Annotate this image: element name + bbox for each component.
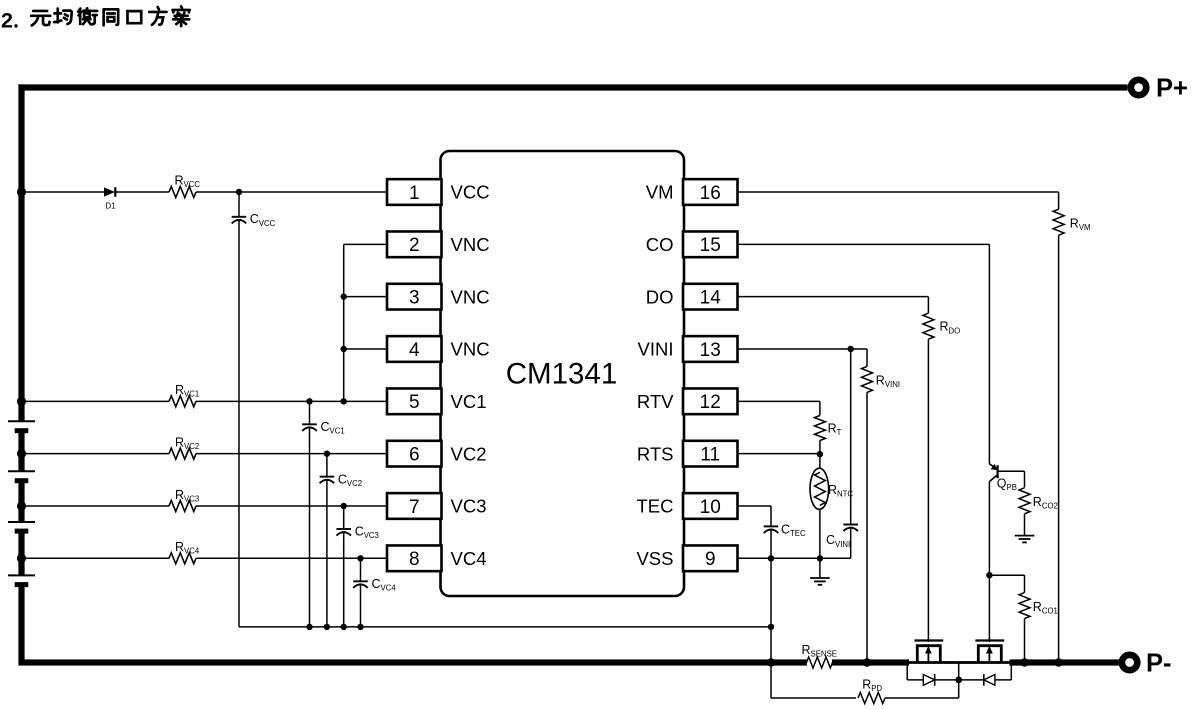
- wire RT upper lead: [819, 401, 821, 415]
- svg-text:P-: P-: [1146, 650, 1172, 678]
- svg-text:14: 14: [700, 287, 722, 308]
- ground (VSS): [819, 558, 821, 578]
- node RNTC/VSS junction: [817, 555, 823, 561]
- wire D2 to diode node: [935, 679, 959, 681]
- capacitor CVC4: [353, 580, 368, 582]
- svg-text:VCC: VCC: [451, 182, 490, 203]
- wire pin 16 to RVM: [738, 191, 1059, 193]
- wire RVC3 to pin 7: [196, 505, 387, 507]
- svg-text:RVINI: RVINI: [876, 374, 900, 390]
- svg-text:VNC: VNC: [451, 339, 490, 360]
- resistor RVM: [1053, 209, 1064, 235]
- pin 2 box (VNC): [387, 231, 442, 257]
- wire RVINI upper lead: [866, 349, 868, 366]
- wire P+ tap to D1: [22, 191, 105, 193]
- node CVC3 bus junction: [341, 624, 347, 630]
- wire CO column mid: [988, 482, 990, 576]
- svg-text:1: 1: [409, 183, 420, 204]
- pin 12 box (RTV): [683, 388, 738, 414]
- pin 5 box (VC1): [387, 388, 442, 414]
- node battery tap 2: [17, 449, 26, 458]
- svg-text:RSENSE: RSENSE: [802, 643, 837, 659]
- wire battery stack rail (left): [18, 84, 24, 421]
- capacitor CVC3: [336, 528, 351, 530]
- wire VSS column to P- rail: [770, 627, 772, 663]
- wire DO column upper: [927, 297, 929, 314]
- wire RVINI to P- rail: [866, 392, 868, 662]
- wire VNC vertical tie: [343, 244, 345, 401]
- wire RTS node to RNTC: [819, 454, 821, 469]
- wire RPD to diode node: [885, 697, 959, 699]
- battery cell B1: [8, 420, 35, 422]
- svg-text:P+: P+: [1156, 75, 1188, 103]
- node bus right junction: [768, 624, 774, 630]
- svg-text:RVC3: RVC3: [175, 488, 199, 504]
- svg-text:TEC: TEC: [637, 496, 674, 517]
- transistor QPB: [989, 464, 997, 470]
- wire QPB base to RCO2: [998, 470, 1025, 472]
- capacitor CVC2: [320, 476, 335, 478]
- svg-text:RVM: RVM: [1070, 217, 1091, 233]
- wire CO column to Q2 gate: [988, 575, 990, 642]
- wire RVM upper lead: [1058, 192, 1060, 209]
- wire battery tap to RVC3: [22, 505, 170, 507]
- node VSS rail junction: [767, 658, 775, 666]
- node CVC4 top junction: [357, 555, 363, 561]
- pin 14 box (DO): [683, 284, 738, 310]
- wire battery tap to RVC2: [22, 453, 170, 455]
- wire CVC4 lower lead: [360, 584, 362, 626]
- svg-text:VC4: VC4: [451, 548, 487, 569]
- node RVINI rail junction: [863, 658, 871, 666]
- wire CVC2 upper lead: [326, 454, 328, 477]
- wire VNC pin 2: [344, 243, 387, 245]
- node CO/RCO1 junction: [986, 572, 992, 578]
- svg-text:5: 5: [409, 392, 420, 413]
- wire pin 9 VSS line: [738, 557, 851, 559]
- svg-text:2: 2: [409, 235, 420, 256]
- svg-text:4: 4: [409, 340, 420, 361]
- node CVC1 top junction: [306, 398, 312, 404]
- wire pin 15 to CO column: [738, 243, 990, 245]
- svg-text:RTS: RTS: [637, 443, 674, 464]
- pin 6 box (VC2): [387, 441, 442, 467]
- pin 4 box (VNC): [387, 336, 442, 362]
- svg-text:RCO1: RCO1: [1033, 600, 1058, 616]
- resistor RVCC: [169, 187, 196, 198]
- wire junction to RCO1: [989, 574, 1024, 576]
- resistor RCO1: [1019, 593, 1030, 619]
- svg-text:VNC: VNC: [451, 234, 490, 255]
- svg-text:RPD: RPD: [862, 678, 882, 694]
- wire DO column to Q1 gate: [927, 339, 929, 642]
- svg-text:12: 12: [700, 392, 721, 413]
- transistor Q1 (NMOS): [927, 638, 929, 642]
- node CVCC junction: [236, 189, 242, 195]
- battery cell B3: [8, 521, 35, 523]
- resistor RVC2: [169, 448, 196, 459]
- wire CVINI to VSS line: [850, 528, 852, 559]
- wire diode node to D3: [959, 679, 984, 681]
- svg-text:VM: VM: [646, 182, 674, 203]
- svg-text:DO: DO: [646, 286, 674, 307]
- capacitor CVCC: [232, 216, 247, 218]
- pin 10 box (TEC): [683, 493, 738, 519]
- node battery tap 4: [17, 554, 26, 563]
- svg-text:13: 13: [700, 340, 721, 361]
- svg-text:RVC2: RVC2: [175, 435, 199, 451]
- wire RNTC to VSS line: [819, 509, 821, 558]
- thermistor RNTC: [810, 468, 829, 509]
- wire P- rail: [19, 659, 807, 665]
- node VNC junction pin3: [341, 293, 347, 299]
- wire pin 12 to RT: [738, 400, 820, 402]
- svg-text:VC3: VC3: [451, 496, 487, 517]
- pin 15 box (CO): [683, 231, 738, 257]
- node CVC1 bus junction: [306, 624, 312, 630]
- wire D1 to RVCC: [115, 191, 169, 193]
- wire pin 11 to RTS node: [738, 453, 820, 455]
- wire RCO1 to P- rail: [1024, 619, 1026, 663]
- pin 16 box (VM): [683, 179, 738, 205]
- svg-text:7: 7: [409, 497, 420, 518]
- svg-text:VC2: VC2: [451, 443, 487, 464]
- resistor RVC3: [169, 500, 196, 511]
- capacitor CTEC: [764, 525, 779, 527]
- wire CVC3 lower lead: [343, 532, 345, 627]
- wire RT to RTS node: [819, 441, 821, 455]
- node CVC2 top junction: [324, 450, 330, 456]
- svg-text:VNC: VNC: [451, 286, 490, 307]
- node battery tap 3: [17, 501, 26, 510]
- svg-text:CVC4: CVC4: [372, 577, 397, 593]
- battery cell B4: [8, 574, 35, 576]
- wire RVM to P- rail: [1058, 235, 1060, 662]
- wire CO column upper: [988, 244, 990, 463]
- pin 7 box (VC3): [387, 493, 442, 519]
- wire CVC1 lower lead: [309, 427, 311, 626]
- diode D2 (Q1 body): [923, 675, 934, 686]
- node VCC tap junction: [17, 187, 26, 196]
- capacitor CVINI: [843, 524, 858, 526]
- svg-text:VINI: VINI: [638, 339, 674, 360]
- wire RVC2 to pin 6: [196, 453, 387, 455]
- pin 1 box (VCC): [387, 179, 442, 205]
- svg-text:CVC2: CVC2: [338, 472, 362, 488]
- svg-text:QPB: QPB: [997, 476, 1017, 492]
- node RVM rail junction: [1054, 658, 1062, 666]
- resistor RCO2: [1019, 488, 1030, 514]
- node RTS junction: [817, 451, 823, 457]
- wire pin 13 to RVINI: [738, 348, 868, 350]
- wire CVINI upper lead: [850, 349, 852, 525]
- node CVC3 top junction: [341, 503, 347, 509]
- svg-text:10: 10: [700, 497, 721, 518]
- wire CTEC upper lead: [770, 506, 772, 526]
- svg-text:VC1: VC1: [451, 391, 487, 412]
- svg-text:3: 3: [409, 287, 420, 308]
- svg-text:CVCC: CVCC: [250, 212, 276, 228]
- node battery tap 1: [17, 397, 26, 406]
- svg-text:RCO2: RCO2: [1033, 495, 1058, 511]
- node VNC junction pin4: [341, 346, 347, 352]
- svg-text:CVINI: CVINI: [826, 533, 850, 549]
- ground (RCO2): [1015, 535, 1035, 537]
- node CVC2 bus junction: [324, 624, 330, 630]
- svg-text:CM1341: CM1341: [506, 358, 618, 391]
- resistor RT: [814, 416, 825, 441]
- wire battery tap to RVC1: [22, 400, 170, 402]
- wire Q1 bypass left: [906, 663, 908, 680]
- svg-text:RVC1: RVC1: [175, 383, 199, 399]
- svg-text:15: 15: [700, 235, 721, 256]
- wire P+ rail: [19, 84, 1128, 90]
- node VNC junction pin5: [341, 398, 347, 404]
- svg-text:RVCC: RVCC: [175, 174, 201, 190]
- wire MOSFET source-drain interconnect: [907, 661, 1011, 664]
- svg-text:RVC4: RVC4: [175, 540, 200, 556]
- node CVINI junction: [848, 346, 854, 352]
- svg-text:RTV: RTV: [637, 391, 674, 412]
- svg-text:D1: D1: [106, 202, 116, 211]
- resistor RVINI: [862, 366, 873, 392]
- title text CJK: [31, 11, 50, 26]
- svg-text:2.: 2.: [1, 9, 19, 33]
- resistor RVC1: [169, 396, 196, 407]
- wire VSS column to bus: [770, 558, 772, 627]
- terminal P+: [1131, 80, 1146, 95]
- wire CVC2 lower lead: [326, 480, 328, 627]
- diode D3 (Q2 body): [983, 674, 985, 686]
- pin 3 box (VNC): [387, 284, 442, 310]
- wire VNC pin 3: [344, 296, 387, 298]
- svg-text:CVC3: CVC3: [355, 525, 379, 541]
- wire CVC1 upper lead: [309, 401, 311, 424]
- svg-text:RDO: RDO: [940, 320, 961, 336]
- wire CVC4 upper lead: [360, 558, 362, 581]
- svg-text:6: 6: [409, 444, 420, 465]
- wire VSS column to RPD: [770, 663, 772, 699]
- svg-text:8: 8: [409, 549, 420, 570]
- wire CTEC to VSS line: [770, 530, 772, 559]
- node CTEC/VSS junction: [768, 555, 774, 561]
- wire RVC4 to pin 8: [196, 557, 387, 559]
- pin 9 box (VSS): [683, 545, 738, 571]
- wire CVCC to bottom bus: [238, 220, 240, 627]
- op-amp U1 CM1341 body: [441, 151, 685, 596]
- wire pin 14 to DO column: [738, 296, 929, 298]
- transistor Q2 (NMOS): [988, 638, 990, 642]
- svg-text:CTEC: CTEC: [781, 522, 806, 538]
- wire RVC1 to pin 5: [196, 400, 387, 402]
- resistor RSENSE: [807, 657, 833, 668]
- wire battery tap to RVC4: [22, 557, 170, 559]
- svg-text:VSS: VSS: [636, 548, 673, 569]
- node diode junction: [955, 677, 962, 684]
- pin 8 box (VC4): [387, 545, 442, 571]
- pin 11 box (RTS): [683, 441, 738, 467]
- resistor RDO: [923, 313, 934, 339]
- wire CVCC upper lead: [238, 192, 240, 217]
- svg-text:16: 16: [700, 183, 721, 204]
- svg-text:CO: CO: [646, 234, 674, 255]
- node CVC4 bus junction: [357, 624, 363, 630]
- svg-text:RNTC: RNTC: [828, 483, 853, 499]
- resistor RPD: [858, 693, 885, 704]
- wire RCO2 to ground: [1024, 514, 1026, 536]
- capacitor CVC1: [302, 423, 317, 425]
- svg-text:RT: RT: [828, 421, 842, 437]
- wire RVCC to pin 1: [196, 191, 387, 193]
- svg-text:9: 9: [705, 549, 716, 570]
- wire VNC pin 4: [344, 348, 387, 350]
- pin 13 box (VINI): [683, 336, 738, 362]
- svg-text:CVC1: CVC1: [321, 420, 345, 436]
- wire CVC3 upper lead: [343, 506, 345, 529]
- resistor RVC4: [169, 553, 196, 564]
- diode D1: [104, 187, 115, 196]
- wire bottom bus: [239, 626, 771, 628]
- node RCO1 rail junction: [1020, 658, 1028, 666]
- terminal P-: [1122, 655, 1137, 670]
- wire Q2 bypass right: [995, 679, 1011, 681]
- battery cell B2: [8, 470, 35, 472]
- svg-text:11: 11: [700, 444, 720, 465]
- wire pin 10 to CTEC: [738, 505, 772, 507]
